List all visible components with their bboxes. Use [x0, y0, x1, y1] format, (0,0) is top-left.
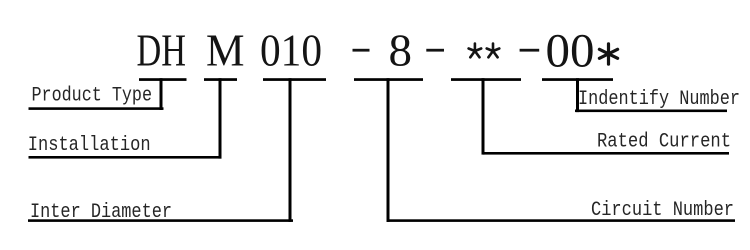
- underline of Rated Current: [483, 152, 729, 155]
- svg-text:Rated Current: Rated Current: [597, 131, 731, 154]
- svg-text:M: M: [206, 25, 245, 76]
- underline under "010": [263, 78, 326, 81]
- leader drop line from "M" to Installation: [219, 78, 222, 158]
- svg-text:010: 010: [260, 25, 322, 76]
- svg-text:Product Type: Product Type: [32, 85, 153, 108]
- underline of Indentify Number: [575, 110, 727, 113]
- asterisk 2 of "**": [487, 44, 500, 58]
- leader drop line from "DH" to Product Type: [160, 78, 163, 110]
- underline under "**": [451, 78, 521, 81]
- underline of Product Type: [29, 107, 164, 110]
- svg-text:Indentify Number: Indentify Number: [578, 88, 740, 111]
- underline of Inter Diameter: [28, 219, 293, 222]
- underline of Installation: [29, 156, 222, 159]
- underline of Circuit Number: [387, 219, 736, 222]
- asterisk 1 of "**": [469, 44, 482, 58]
- dash 1: [353, 49, 370, 52]
- svg-text:00: 00: [546, 25, 595, 78]
- underline under "M": [204, 78, 237, 81]
- leader drop line from "010" to Inter Diameter: [289, 78, 292, 222]
- leader drop line from "8" to Circuit Number: [387, 78, 390, 222]
- leader drop line from "00*" to Indentify Number: [576, 78, 579, 112]
- underline under "- 8": [354, 78, 423, 81]
- dash 2: [426, 49, 444, 52]
- leader drop line from "**" to Rated Current: [482, 78, 485, 154]
- svg-text:Installation: Installation: [28, 134, 151, 157]
- underline under "DH": [139, 78, 187, 81]
- dash 3: [520, 49, 540, 52]
- svg-text:8: 8: [389, 25, 413, 76]
- svg-text:DH: DH: [137, 25, 187, 76]
- trailing asterisk of "00*" (six-spoke): [599, 44, 617, 64]
- svg-text:Circuit Number: Circuit Number: [591, 199, 734, 222]
- underline under "00*": [542, 78, 613, 81]
